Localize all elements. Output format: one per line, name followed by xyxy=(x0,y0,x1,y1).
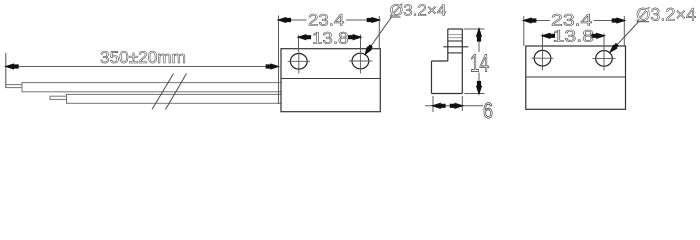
arrowhead 350 left xyxy=(6,64,18,68)
23.4 right extension line xyxy=(378,16,380,48)
arrowhead 14 top xyxy=(477,29,481,41)
tab lower line xyxy=(448,52,463,54)
side body bottom edge xyxy=(432,93,463,95)
arrowhead 350 right xyxy=(266,64,278,68)
svg-text:13.8: 13.8 xyxy=(312,29,349,47)
hole H1 circle xyxy=(290,54,307,70)
hole H4 crosshair xyxy=(593,57,616,59)
svg-text:14: 14 xyxy=(470,51,489,78)
leader line to hole H2 xyxy=(365,17,392,55)
arrowhead 23.4 right v3 xyxy=(612,18,624,22)
arrowhead 23.4 right xyxy=(367,18,379,22)
arrowhead 13.8 left xyxy=(299,35,311,39)
hole H1 crosshair xyxy=(288,60,310,62)
svg-text:Ø3.2×4: Ø3.2×4 xyxy=(636,5,696,25)
arrowhead 13.8 left v3 xyxy=(543,34,555,38)
arrowhead 13.8 right xyxy=(349,35,361,39)
wire 2 bare tip xyxy=(50,96,67,99)
svg-text:13.8: 13.8 xyxy=(553,28,595,46)
svg-text:6: 6 xyxy=(483,98,493,121)
leader arrowhead v3 xyxy=(610,44,618,52)
side shelf edge xyxy=(432,60,448,62)
13.8 dimension line v3 xyxy=(543,35,552,37)
hole H3 crosshair xyxy=(532,57,554,59)
13.8 extension lines xyxy=(298,35,300,51)
body left extension line xyxy=(278,16,280,105)
14 top extension xyxy=(464,28,485,30)
magnet body outline xyxy=(526,46,626,109)
hole H2 circle xyxy=(352,53,369,69)
arrowhead 6 left xyxy=(433,104,445,108)
side tab top edge xyxy=(448,28,463,30)
wire 1 insulation xyxy=(22,83,281,92)
tab rib grey 1 xyxy=(448,34,462,36)
arrowhead 23.4 left xyxy=(279,18,291,22)
6 dimension line xyxy=(425,105,483,107)
flange line through tab xyxy=(443,46,468,48)
svg-text:23.4: 23.4 xyxy=(308,11,344,29)
switch body divider xyxy=(281,78,380,80)
cable break slash 2 xyxy=(166,74,187,110)
14 dimension line xyxy=(478,29,480,52)
dimension line 350±20mm xyxy=(7,66,279,68)
magnet body divider xyxy=(526,76,626,78)
arrowhead 14 bottom xyxy=(477,82,481,94)
tab rib grey 2 xyxy=(448,37,462,39)
right extension line v3 xyxy=(623,16,625,46)
svg-text:350±20mm: 350±20mm xyxy=(100,48,186,67)
side body right edge xyxy=(461,29,463,94)
23.4 dimension line xyxy=(279,19,307,21)
6 extension lines xyxy=(432,96,434,112)
arrowhead 23.4 left v3 xyxy=(524,18,536,22)
leader line to hole H4 xyxy=(610,22,639,53)
side tab left edge xyxy=(447,29,449,61)
switch body outline xyxy=(281,49,380,112)
13.8 extension lines v3 xyxy=(542,34,544,51)
arrowhead 6 right xyxy=(450,104,462,108)
side body left edge xyxy=(431,61,433,94)
arrowhead 13.8 right v3 xyxy=(592,34,604,38)
leader arrowhead xyxy=(365,45,372,54)
tab rib dark xyxy=(448,40,462,42)
hole H4 circle xyxy=(596,51,613,67)
13.8 dimension line xyxy=(299,36,312,38)
cable break slash 1 xyxy=(152,74,174,110)
wire 1 bare tip xyxy=(6,85,22,88)
hole H2 crosshair xyxy=(349,60,372,62)
14 bottom extension xyxy=(465,93,485,95)
extension line at cable tip xyxy=(5,53,7,88)
svg-text:Ø3.2×4: Ø3.2×4 xyxy=(390,3,447,20)
left extension line v3 xyxy=(523,16,525,46)
wire 2 insulation xyxy=(67,94,282,103)
23.4 dimension line v3 xyxy=(524,20,550,22)
hole H3 circle xyxy=(534,50,551,66)
